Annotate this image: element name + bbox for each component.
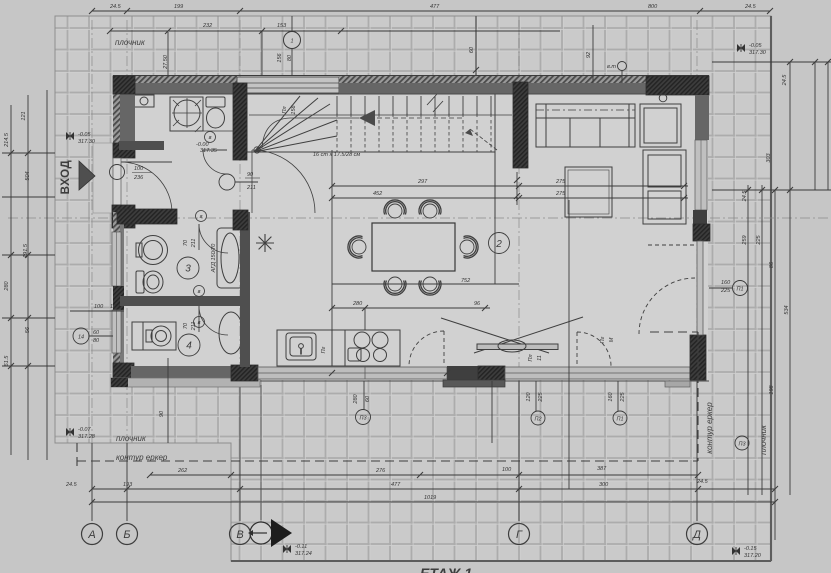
svg-text:14: 14 (78, 335, 84, 341)
svg-text:-0.11: -0.11 (295, 544, 307, 550)
east wall upper body (695, 95, 709, 140)
axis bubble V (230, 524, 251, 545)
south living door dashed (577, 332, 611, 366)
horizontal axis line (8, 217, 828, 219)
svg-text:191.5: 191.5 (23, 243, 29, 258)
WC washbasin round (174, 100, 200, 126)
axis B line (126, 20, 128, 443)
kitchen sink (286, 333, 316, 360)
room circle 4 (178, 334, 200, 356)
stairs walk line (262, 118, 359, 148)
svg-text:214.5: 214.5 (4, 132, 10, 148)
svg-text:контур еркер: контур еркер (116, 453, 168, 462)
svg-text:56: 56 (25, 326, 31, 333)
svg-text:156: 156 (291, 104, 297, 114)
svg-text:1019: 1019 (424, 495, 436, 501)
svg-text:280: 280 (353, 393, 359, 404)
floor drain asterisk (256, 234, 274, 252)
svg-text:2: 2 (495, 239, 502, 250)
svg-text:156: 156 (277, 52, 283, 62)
svg-text:плочник: плочник (115, 38, 146, 47)
svg-text:П3: П3 (359, 416, 367, 422)
kitchen counter (277, 330, 400, 366)
svg-text:504: 504 (25, 171, 31, 180)
bath4 door arc (199, 306, 228, 335)
left dim verticals (10, 105, 12, 455)
axis G line (518, 20, 520, 381)
axis bubble D (687, 524, 708, 545)
svg-text:160: 160 (608, 391, 614, 401)
svg-text:в: в (200, 214, 203, 220)
west wall corner block top-left (113, 76, 135, 94)
WC boiler (134, 95, 154, 107)
east wall window (695, 140, 707, 210)
svg-text:60: 60 (93, 330, 100, 336)
svg-text:11: 11 (537, 355, 543, 361)
west wall block below entry door (112, 205, 135, 228)
coffee table (565, 167, 612, 217)
bath3 door arc (199, 224, 228, 253)
svg-text:211: 211 (191, 239, 197, 249)
stairs outline (247, 94, 495, 152)
south wall window band living (505, 367, 690, 379)
svg-text:100: 100 (94, 304, 104, 310)
bathroom partition east (240, 212, 250, 367)
svg-text:800: 800 (648, 4, 658, 10)
south wall block B axis (231, 365, 258, 381)
window marker 14 left (73, 328, 89, 344)
svg-text:70: 70 (183, 239, 189, 246)
bottom dim row 3 (92, 501, 775, 503)
bath4 shower tub (219, 312, 243, 354)
stairs treads solid upper (337, 96, 491, 115)
svg-text:317.30: 317.30 (78, 139, 96, 145)
south-east corner pier (690, 335, 706, 380)
chair bottom left (384, 277, 406, 295)
svg-text:160: 160 (721, 280, 731, 286)
axis A line (91, 20, 93, 443)
hall door swing arc (252, 150, 315, 213)
dining table (372, 223, 455, 271)
svg-text:225: 225 (720, 288, 731, 294)
south plinth band left (111, 378, 260, 387)
bottom dim row 1 (150, 474, 698, 476)
svg-text:в: в (198, 289, 201, 295)
svg-text:317.35: 317.35 (200, 148, 218, 154)
svg-text:303: 303 (766, 152, 772, 162)
stairs break mark (427, 94, 443, 112)
sliding partition lens (498, 340, 526, 352)
svg-text:477: 477 (391, 482, 401, 488)
sliding partition X right diagonal (474, 317, 583, 353)
south wall hatch block (478, 366, 505, 380)
entry door opening (113, 158, 121, 205)
sofa (536, 104, 635, 147)
window marker P3 kitchen (356, 410, 371, 425)
svg-text:60: 60 (469, 46, 475, 53)
axis A dropline (91, 443, 93, 521)
svg-text:317.28: 317.28 (78, 434, 96, 440)
bath4 washing machine (143, 322, 176, 350)
svg-text:317.24: 317.24 (295, 551, 312, 557)
armchair (640, 104, 681, 147)
landing edge line (494, 94, 496, 218)
svg-text:в: в (198, 320, 201, 326)
svg-text:27.50: 27.50 (163, 54, 169, 70)
bath3 bathtub (217, 228, 243, 288)
svg-text:300: 300 (599, 482, 609, 488)
svg-text:ЕТАЖ 1: ЕТАЖ 1 (420, 565, 472, 573)
entry door leaf and swing (121, 162, 172, 213)
svg-text:280: 280 (4, 280, 10, 291)
axis G dropline (518, 381, 520, 521)
bath3 washbasin (139, 236, 168, 265)
room circle 3 (177, 257, 199, 279)
chair right (460, 236, 478, 258)
east terrace door glazing (697, 241, 703, 335)
axis D dropline (696, 381, 698, 521)
WC partition bottom (119, 141, 164, 150)
west wall pier between windows (113, 286, 124, 310)
svg-text:Пг: Пг (600, 336, 606, 343)
bottom dim row 2 (92, 488, 775, 490)
svg-text:12: 12 (110, 304, 116, 310)
sliding partition rail (477, 344, 558, 350)
tv unit (643, 150, 686, 224)
svg-text:259: 259 (742, 235, 748, 245)
svg-text:275: 275 (555, 191, 566, 197)
svg-text:236: 236 (133, 175, 144, 181)
svg-text:24.5: 24.5 (109, 4, 122, 10)
svg-text:100: 100 (502, 467, 512, 473)
east wall hatch block (693, 224, 710, 241)
svg-text:П1: П1 (736, 287, 743, 293)
svg-text:плочник: плочник (759, 424, 768, 455)
axis B dropline (126, 443, 128, 521)
svg-text:120: 120 (526, 391, 532, 401)
svg-text:752: 752 (461, 278, 470, 284)
south wall band left (bathrooms) (131, 366, 231, 381)
svg-text:297: 297 (417, 179, 428, 185)
entry porch slab (93, 143, 113, 213)
svg-text:М: М (609, 337, 615, 342)
svg-text:24.5: 24.5 (744, 4, 757, 10)
svg-text:452: 452 (373, 191, 382, 197)
svg-text:70: 70 (183, 322, 189, 329)
svg-text:61.5: 61.5 (4, 355, 10, 367)
hall-living door marker circle (219, 174, 235, 190)
stairs winder lines (254, 96, 337, 152)
svg-text:275: 275 (555, 179, 566, 185)
interior dim kitchen (332, 307, 490, 309)
east terrace door dashed (639, 278, 695, 334)
svg-text:86: 86 (769, 261, 775, 268)
svg-text:24.5: 24.5 (782, 74, 788, 87)
svg-text:АГД 150/70: АГД 150/70 (211, 243, 217, 274)
north wall window (237, 77, 339, 93)
axis D line (696, 20, 698, 381)
WC vanity counter (170, 97, 203, 131)
WC toilet (206, 97, 225, 107)
west wall upper (entry) (113, 76, 120, 158)
stairs newel circle (254, 147, 260, 153)
small door circles (205, 132, 216, 143)
WC door arc (203, 150, 227, 174)
sliding partition X left diagonal (441, 318, 549, 353)
svg-text:-0.00: -0.00 (196, 142, 209, 148)
top vertical dim window (261, 31, 263, 76)
svg-text:А: А (87, 529, 95, 541)
svg-text:Б: Б (123, 529, 130, 541)
svg-text:121: 121 (21, 111, 27, 120)
svg-text:225: 225 (538, 391, 544, 402)
svg-text:3: 3 (185, 264, 191, 275)
bottom contour dashed (77, 460, 698, 462)
svg-text:контур еркер: контур еркер (705, 402, 714, 454)
svg-text:225: 225 (756, 234, 762, 245)
svg-text:211: 211 (246, 185, 256, 191)
svg-text:В: В (236, 529, 243, 541)
bathroom partition mid (120, 296, 240, 306)
window marker P1 bottom (613, 411, 627, 425)
svg-text:4: 4 (186, 341, 192, 352)
svg-text:90: 90 (247, 172, 254, 178)
top vertical dim at stairs light (167, 32, 169, 75)
axis bubble G (509, 524, 530, 545)
chair top right (419, 200, 441, 218)
north wall insulation strip left (113, 76, 237, 83)
svg-text:Пг: Пг (321, 346, 327, 353)
svg-text:317.20: 317.20 (744, 553, 762, 559)
svg-text:96: 96 (474, 301, 481, 307)
window marker P2 (531, 411, 545, 425)
vent circle on top wall (618, 62, 627, 71)
stairs walk arrow (359, 110, 375, 126)
kitchen cooktop (354, 332, 370, 348)
svg-text:П3: П3 (738, 442, 746, 448)
stairs treads dashed lower (337, 120, 491, 152)
WC partition vertical (hall/stairs) (233, 83, 247, 160)
chair left (348, 236, 366, 258)
chair bottom right (419, 277, 441, 295)
chair top left (384, 200, 406, 218)
svg-text:92: 92 (586, 52, 592, 58)
svg-text:317.30: 317.30 (749, 50, 767, 56)
interior dim dining (332, 185, 688, 187)
stairs tread dim line (249, 114, 512, 116)
svg-text:-0.05: -0.05 (749, 43, 762, 49)
svg-text:Пл: Пл (528, 354, 534, 361)
svg-text:225: 225 (620, 391, 626, 402)
axis V line (239, 20, 241, 381)
svg-text:387: 387 (597, 466, 607, 472)
svg-text:100: 100 (134, 166, 144, 172)
entrance arrow (79, 161, 95, 190)
svg-text:Д: Д (691, 529, 701, 541)
axis V dropline (239, 381, 241, 521)
svg-text:193: 193 (123, 482, 133, 488)
stairs dashed corner arrow (470, 129, 497, 150)
stair spine wall stub (513, 82, 528, 168)
bath4 cabinet (132, 322, 143, 350)
svg-text:-0.07: -0.07 (78, 427, 91, 433)
svg-text:16 ст х 17.5/28 см: 16 ст х 17.5/28 см (313, 152, 360, 158)
west wall block above entry door (113, 143, 135, 158)
svg-text:в: в (209, 135, 212, 141)
svg-text:60: 60 (365, 395, 371, 402)
svg-text:80: 80 (93, 338, 100, 344)
svg-text:211: 211 (191, 322, 197, 332)
top vertical dim 60 (475, 16, 477, 76)
west wall window 2 (112, 310, 121, 353)
svg-text:Пл: Пл (282, 106, 288, 113)
south wall step under blocks (443, 380, 505, 387)
bath3 toilet (143, 271, 163, 293)
svg-text:477: 477 (430, 4, 440, 10)
entry door marker circle (110, 165, 125, 180)
svg-text:534: 534 (784, 305, 790, 314)
section line bottom (260, 385, 262, 520)
north wall body right (339, 76, 646, 83)
svg-text:80: 80 (287, 54, 293, 61)
svg-text:плочник: плочник (116, 434, 147, 443)
terrace step bottom right (665, 381, 690, 387)
section marker bottom (248, 519, 292, 547)
axis bubble B (117, 524, 138, 545)
svg-text:П2: П2 (534, 417, 541, 423)
axis bubble A (82, 524, 103, 545)
svg-text:-0.15: -0.15 (744, 546, 757, 552)
svg-text:-0.05: -0.05 (78, 132, 91, 138)
east wall top corner block (646, 76, 709, 95)
svg-text:Г: Г (516, 529, 523, 541)
stair stub dim (516, 172, 518, 205)
svg-text:153: 153 (277, 23, 287, 29)
svg-text:24.5: 24.5 (742, 190, 748, 203)
bathroom partition top (117, 209, 177, 224)
svg-text:276: 276 (375, 468, 386, 474)
top dim row 1 (92, 10, 770, 12)
tile area right boundary dark line (770, 16, 772, 561)
svg-text:1: 1 (290, 39, 293, 45)
svg-text:24.5: 24.5 (696, 479, 709, 485)
svg-text:198: 198 (769, 384, 775, 394)
room circle 2 (489, 233, 510, 254)
kitchen door dashed swing (409, 331, 444, 366)
building interior floor (113, 76, 708, 380)
interior dim living (329, 183, 335, 189)
svg-text:262: 262 (177, 468, 187, 474)
svg-text:24.5: 24.5 (65, 482, 78, 488)
svg-text:280: 280 (352, 301, 363, 307)
svg-text:в.т: в.т (607, 64, 616, 70)
top section circle marker (284, 32, 301, 49)
svg-text:90: 90 (159, 410, 165, 417)
top dim row 2 (110, 30, 560, 32)
svg-text:ВХОД: ВХОД (60, 160, 72, 195)
svg-text:232: 232 (202, 23, 212, 29)
svg-text:199: 199 (174, 4, 183, 10)
east wall block (693, 210, 707, 224)
svg-text:П1: П1 (616, 417, 623, 423)
window marker P1 right (733, 281, 748, 296)
south wall block middle dark (447, 366, 478, 380)
bathroom east pier (233, 210, 248, 230)
window marker P3 right bottom (735, 436, 749, 450)
west wall bathroom section (113, 212, 120, 381)
south-west corner block (113, 363, 134, 378)
right dim verticals (747, 185, 749, 495)
elevation marks (66, 44, 745, 555)
west wall window 1 (112, 232, 121, 286)
south wall window band kitchen (258, 367, 447, 379)
south exterior dim verticals (167, 358, 169, 443)
north wall body left (113, 83, 237, 94)
